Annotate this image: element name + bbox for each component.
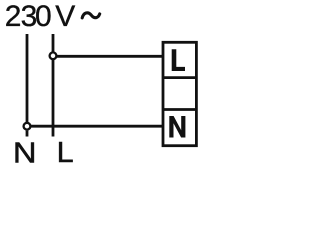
wire N stub below circle: [26, 131, 29, 137]
svg-text:2: 2: [5, 0, 22, 33]
terminal label N: [169, 116, 185, 138]
wire horizontal to N terminal: [31, 125, 163, 128]
node terminal circle on L wire: [50, 52, 57, 59]
terminal label L: [172, 49, 185, 71]
wire N vertical: [26, 34, 29, 122]
terminal block divider 1: [163, 76, 196, 79]
label AC tilde: [82, 13, 100, 18]
wire horizontal to L terminal: [57, 55, 163, 58]
svg-text:V: V: [55, 0, 75, 33]
svg-text:N: N: [13, 138, 37, 168]
wire L vertical lower: [52, 60, 55, 137]
svg-text:L: L: [57, 137, 74, 168]
terminal block outline: [163, 42, 196, 145]
svg-text:0: 0: [35, 0, 52, 33]
wire L vertical: [52, 34, 55, 52]
terminal block divider 2: [163, 108, 196, 111]
node terminal circle on N wire: [24, 123, 31, 130]
